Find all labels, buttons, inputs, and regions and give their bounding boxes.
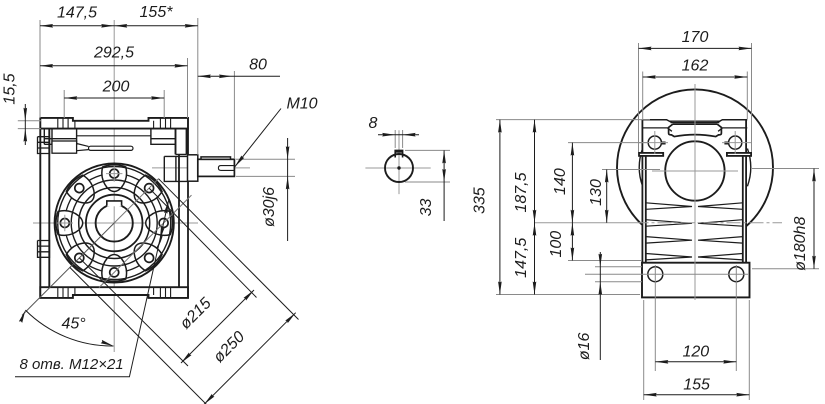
SW radial leg of 45deg dimension: [22, 223, 114, 315]
dimension 80 line: [198, 75, 280, 77]
output axis centerline: [534, 222, 635, 224]
dimension 292,5 line: [40, 65, 188, 67]
dimension 170 line: [639, 47, 752, 49]
diagonal chord centerline through right and bottom bolt holes: [99, 195, 192, 288]
svg-text:335: 335: [472, 187, 489, 214]
svg-text:130: 130: [588, 179, 605, 206]
ext lines 33: [405, 149, 450, 151]
bearing cover collar: [188, 155, 198, 181]
left side tab lower: [38, 241, 50, 258]
input bearing boss: [164, 156, 187, 181]
svg-text:ø30j6: ø30j6: [261, 187, 278, 227]
ribs band 3: [646, 237, 743, 244]
ext diagonal dia215 NE: [149, 188, 256, 297]
svg-text:8: 8: [369, 115, 378, 132]
svg-text:155*: 155*: [140, 4, 174, 21]
ext lines dia180h8: [752, 168, 819, 170]
dimension 15,5 line: [24, 104, 26, 145]
base block: [642, 263, 750, 298]
dimension 335 line: [499, 120, 501, 295]
svg-text:147,5: 147,5: [513, 238, 530, 278]
45 deg arc: [25, 310, 113, 346]
dimension 130 line: [606, 170, 608, 223]
left side tab upper: [38, 137, 50, 154]
input center hole: [665, 141, 724, 200]
flange outer circle inner: [58, 167, 171, 280]
arrows right view: [498, 47, 816, 397]
svg-text:45°: 45°: [61, 316, 86, 333]
dimension dia30j6 line: [287, 138, 289, 241]
dia215 dimension line: [181, 290, 254, 363]
oil plug tip: [77, 144, 89, 151]
svg-text:187,5: 187,5: [513, 172, 530, 212]
ext diagonal dia250 SW: [70, 268, 210, 404]
svg-text:33: 33: [418, 199, 435, 217]
ext lines dia16: [595, 266, 642, 268]
dimension dia16 line: [599, 252, 601, 360]
dimension 140 + 100 line: [571, 143, 573, 261]
NE radial centerline: [114, 179, 158, 223]
ext lines 162: [642, 72, 644, 120]
body top ledge line: [77, 135, 151, 137]
shaft key: [201, 157, 231, 159]
svg-text:170: 170: [682, 29, 709, 46]
svg-text:292,5: 292,5: [93, 45, 134, 62]
ribs band 1: [646, 203, 743, 210]
base holes horizontal centerline: [585, 273, 748, 275]
top flange bolt hole left: [648, 136, 661, 149]
svg-text:120: 120: [682, 344, 709, 361]
housing top bar: [40, 118, 188, 129]
housing right wall: [176, 129, 189, 298]
base hole left: [648, 267, 663, 282]
M10 leader: [235, 109, 281, 167]
flange outer circle: [55, 163, 174, 282]
body face panel: [642, 119, 746, 153]
hub circle: [86, 195, 143, 252]
texts left view: [2, 4, 318, 373]
oil plug body: [52, 141, 77, 153]
svg-text:15,5: 15,5: [2, 73, 19, 104]
ext diagonal dia215 SW: [79, 258, 188, 366]
center dot: [397, 166, 400, 169]
bolt bosses ring: [56, 165, 173, 282]
svg-text:ø180h8: ø180h8: [792, 217, 809, 271]
ext line holes level for 140: [568, 142, 648, 144]
centerline vertical of front view: [113, 20, 115, 352]
extension lines dia30j6: [236, 158, 295, 160]
svg-text:140: 140: [552, 168, 569, 195]
dimension 200 line: [64, 97, 164, 99]
upper-left block: [44, 129, 76, 145]
wings: [639, 153, 663, 156]
dimension dia180h8 line: [813, 169, 815, 269]
ribs band 2: [646, 220, 743, 227]
svg-text:100: 100: [548, 231, 565, 258]
plate middle double edge: [670, 121, 721, 122]
extension lines top dims: [39, 20, 41, 118]
bolt hole centerline ticks: [57, 165, 123, 231]
body side walls: [642, 119, 746, 262]
upper-right block: [151, 129, 187, 155]
bolt hole crosshairs: [639, 131, 751, 154]
housing left wall: [40, 129, 49, 298]
right view vertical centerline: [694, 84, 696, 300]
arrows left view: [19, 24, 297, 404]
ribs band 4: [646, 254, 743, 260]
top flange bolt hole right: [729, 136, 742, 149]
flange raised face circle: [71, 180, 157, 266]
flange scallop circle: [65, 174, 164, 273]
centerline input shaft: [152, 167, 250, 169]
dimension 33 line: [443, 150, 445, 221]
dimension 147,5 line: [40, 25, 114, 27]
ext lines 8: [394, 130, 396, 148]
centerline horizontal of front view: [33, 222, 198, 224]
input hole centerline: [652, 170, 738, 172]
ext line bottom for 335/147.5: [496, 294, 640, 296]
ext lines 120 (hole centers): [654, 265, 656, 371]
ext line top for 335/187.5: [496, 119, 650, 121]
ext line base top for 100: [568, 260, 642, 262]
spigot circle side arcs: [639, 149, 750, 187]
dia250 dimension line: [204, 313, 296, 404]
bottom bar tick lines: [58, 287, 171, 298]
svg-text:8 отв. М12×21: 8 отв. М12×21: [20, 356, 124, 373]
top bar tick lines: [58, 118, 171, 129]
output bore with keyway: [96, 201, 133, 242]
8 otv leader line: [15, 201, 169, 377]
input shaft: [198, 159, 235, 176]
oil breather slot: [89, 146, 134, 150]
extension line shaft end for 80: [233, 71, 235, 158]
top slot tub: [669, 124, 722, 136]
dimension 155 line: [644, 394, 750, 396]
shaft section circle: [385, 154, 413, 182]
dimension 187,5 + 147,5 line: [534, 120, 536, 295]
ext lines 170: [638, 43, 640, 152]
dimension 8 line: [378, 134, 419, 136]
hub circle outer: [79, 188, 150, 259]
texts right view: [472, 29, 810, 394]
base hole right: [729, 267, 744, 282]
dimension 155* line: [114, 25, 198, 27]
svg-text:ø16: ø16: [576, 333, 593, 361]
bolt holes 8x: [60, 169, 168, 277]
extension lines 15,5: [18, 120, 41, 122]
svg-text:147,5: 147,5: [57, 5, 97, 22]
svg-text:200: 200: [102, 79, 130, 96]
wheel housing big circle: [617, 89, 773, 245]
svg-text:80: 80: [249, 57, 267, 74]
svg-text:162: 162: [682, 58, 709, 75]
ext line worm axis for 130: [602, 169, 660, 171]
M10 tapped hole in shaft end: [218, 166, 233, 171]
tub side dash marks: [662, 142, 666, 145]
dimension 162 line: [643, 76, 748, 78]
top plate edge: [643, 120, 748, 123]
key section: [395, 150, 402, 157]
dimension 120 line: [655, 361, 736, 363]
mid body: [642, 153, 746, 263]
svg-text:155: 155: [683, 377, 710, 394]
ext lines 155: [643, 300, 645, 400]
svg-text:M10: M10: [286, 96, 317, 113]
plate block bottom lines: [643, 128, 748, 131]
ext diagonal dia250 NE: [159, 179, 299, 320]
section centerlines: [365, 130, 430, 194]
housing bottom bar: [40, 287, 188, 298]
